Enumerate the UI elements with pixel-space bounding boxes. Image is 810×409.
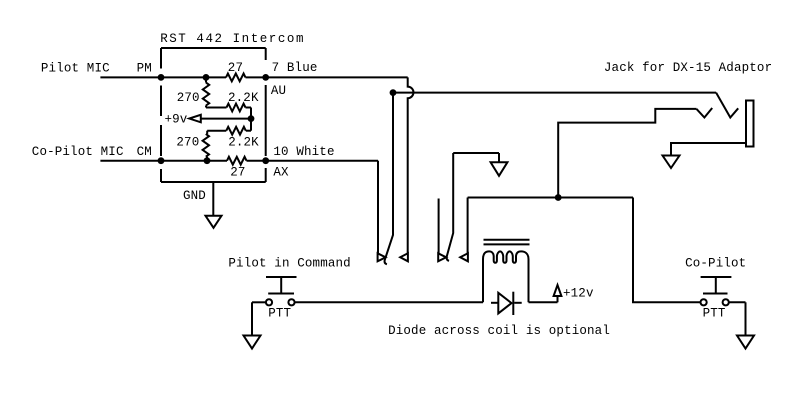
wire pilot PTT to ground (252, 302, 266, 335)
svg-text:27: 27 (228, 61, 243, 75)
svg-text:AX: AX (273, 165, 289, 179)
wire co-pilot mic (100, 160, 227, 162)
+12v arrow (554, 285, 562, 302)
resistor 27 top zigzag (226, 74, 246, 82)
svg-text:Diode across coil is optional: Diode across coil is optional (388, 324, 610, 338)
wire armature1 to jack ring (393, 92, 716, 94)
svg-text:7 Blue: 7 Blue (272, 61, 318, 75)
wire unit2 right contact up (467, 198, 469, 254)
node co-pilot divider junction (204, 157, 211, 164)
ground co-pilot PTT (737, 336, 754, 349)
svg-text:2.2K: 2.2K (228, 91, 259, 105)
node PM box-left junction (158, 74, 165, 81)
node AU box-right junction (262, 74, 269, 81)
diode D1 (498, 292, 513, 315)
resistor 27 bottom zigzag (227, 157, 247, 165)
co-pilot PTT right terminal (723, 299, 729, 305)
svg-text:PTT: PTT (703, 307, 726, 321)
wire plug sleeve to ground (671, 143, 746, 156)
resistor 270 lower (203, 131, 209, 161)
svg-text:10 White: 10 White (273, 145, 334, 159)
jack ring contact (716, 93, 738, 118)
svg-text:2.2K: 2.2K (228, 136, 259, 150)
wire armature2 to ground (453, 153, 499, 162)
svg-text:+9v: +9v (165, 113, 188, 127)
svg-text:Jack for DX-15 Adaptor: Jack for DX-15 Adaptor (604, 61, 772, 75)
relay armature 1 (385, 93, 393, 265)
ground pilot PTT (244, 336, 261, 349)
svg-text:AU: AU (271, 84, 286, 98)
wire net197 horizontal (468, 197, 633, 199)
pilot PTT right terminal (288, 299, 294, 305)
ground intercom (206, 216, 222, 228)
svg-text:GND: GND (183, 189, 206, 203)
jack plug body (746, 101, 754, 147)
relay coil (483, 251, 529, 302)
ground jack sleeve (663, 156, 680, 169)
wire gnd stem (212, 182, 214, 216)
node pilot divider junction (203, 74, 210, 81)
node AX box-right junction (262, 157, 269, 164)
svg-text:RST 442 Intercom: RST 442 Intercom (160, 32, 305, 46)
intercom box outline (161, 48, 266, 182)
contact arrow left unit2 (460, 253, 468, 261)
contact arrow left unit1 (400, 253, 408, 261)
node +9v junction (248, 115, 255, 122)
wire co-pilot PTT to ground (729, 302, 746, 335)
svg-text:CM: CM (137, 145, 152, 159)
svg-text:270: 270 (177, 91, 200, 105)
co-pilot PTT left terminal (701, 299, 707, 305)
relay core bars (484, 240, 530, 245)
node armature1 junction (390, 89, 397, 96)
node net197 junction (555, 194, 562, 201)
relay armature 2 (447, 153, 454, 261)
co-pilot PTT button (701, 277, 732, 294)
diode D1 anode stub (491, 302, 498, 304)
wire co-pilot mic to relay (247, 160, 379, 162)
wire AU hop over jack wire (408, 77, 414, 253)
svg-text:Co-Pilot MIC: Co-Pilot MIC (32, 145, 124, 159)
wire pilot PTT to coil (295, 301, 483, 303)
wire 10White down to contact (377, 161, 379, 254)
resistor 2.2K lower (207, 127, 251, 135)
pilot PTT left terminal (266, 299, 272, 305)
pilot PTT button (266, 277, 297, 294)
node CM box-left junction (158, 157, 165, 164)
wire coil to +12v (529, 301, 558, 303)
resistor 2.2K upper (206, 104, 251, 112)
svg-text:Pilot in Command: Pilot in Command (228, 257, 350, 271)
svg-text:27: 27 (230, 165, 245, 179)
ground armature2 (491, 162, 508, 176)
svg-text:PM: PM (137, 61, 152, 75)
diode D1 cathode stub (514, 302, 522, 304)
svg-text:PTT: PTT (268, 307, 291, 321)
wire jack tip feed (558, 109, 696, 198)
wire pilot mic (100, 76, 226, 78)
resistor 270 upper (203, 77, 209, 107)
contact arrow right unit1 (378, 253, 386, 261)
wire pilot mic to bump corner (246, 76, 408, 78)
jack tip contact (697, 108, 713, 118)
stub contact unit2 left (438, 199, 440, 254)
svg-text:270: 270 (176, 136, 199, 150)
+9v arrow and line (165, 113, 252, 127)
wire right divider vertical (250, 108, 252, 131)
svg-text:Co-Pilot: Co-Pilot (685, 257, 746, 271)
contact arrow right unit2 (438, 253, 446, 261)
svg-text:+12v: +12v (563, 287, 594, 301)
svg-text:Pilot MIC: Pilot MIC (41, 61, 110, 75)
wire net197 to co-pilot PTT (633, 198, 700, 303)
